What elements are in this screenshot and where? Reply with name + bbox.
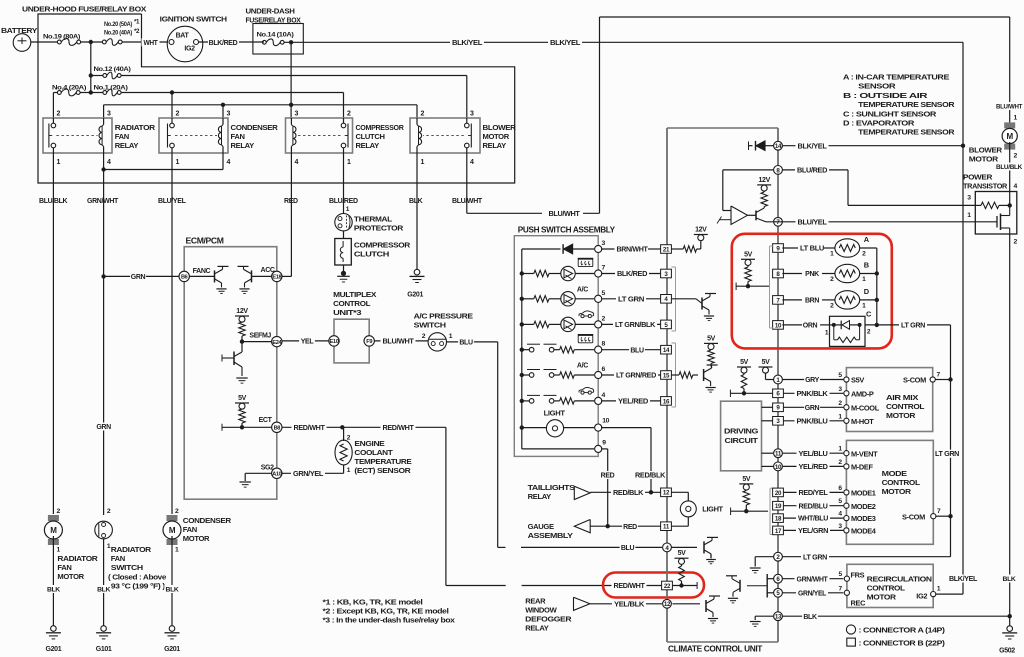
- wire GRY pin1 to air mix S5V: [782, 379, 843, 381]
- svg-text:GAUGE: GAUGE: [528, 522, 554, 531]
- svg-text:5V: 5V: [238, 395, 247, 402]
- svg-text:12V: 12V: [236, 308, 248, 315]
- red highlight around RED/WHT pin 22: [603, 573, 704, 598]
- svg-text:12V: 12V: [758, 177, 770, 184]
- recirculation control motor box: [847, 564, 933, 607]
- svg-text:BLU/YEL: BLU/YEL: [158, 198, 187, 205]
- pin15 input resistor and transistor: [671, 374, 679, 376]
- svg-text:22: 22: [664, 583, 671, 590]
- svg-text:CLUTCH: CLUTCH: [354, 250, 389, 259]
- svg-text:9: 9: [602, 439, 606, 446]
- wire BLU pressure switch to climate pin 4: [447, 341, 498, 343]
- svg-text:MOTOR: MOTOR: [57, 572, 84, 581]
- svg-text:CLUTCH: CLUTCH: [356, 132, 385, 141]
- svg-text:PNK/BLU: PNK/BLU: [797, 418, 828, 425]
- wire BLK relay4 coil to ground: [416, 153, 418, 269]
- svg-text:S-COM: S-COM: [902, 512, 925, 521]
- svg-text:2: 2: [175, 508, 179, 515]
- power transistor box: [975, 192, 1017, 235]
- svg-text:4: 4: [107, 159, 111, 166]
- svg-text:BATTERY: BATTERY: [1, 26, 37, 35]
- ground G502: [1007, 626, 1013, 632]
- connector group bracket pins 14-15-16: [675, 343, 677, 407]
- svg-text:TEMPERATURE: TEMPERATURE: [354, 457, 411, 466]
- wire GRN label above fan switch: [96, 423, 112, 431]
- svg-text:M: M: [50, 526, 57, 535]
- wire protector to compressor clutch: [343, 231, 345, 239]
- svg-text:RED/BLK: RED/BLK: [635, 473, 665, 480]
- svg-text:FAN: FAN: [115, 132, 129, 141]
- svg-text:5V: 5V: [744, 251, 753, 258]
- svg-text:4: 4: [602, 392, 606, 399]
- pin21 pull-up resistor to 12V: [671, 248, 683, 250]
- wire battery to fuse No.19: [31, 41, 58, 43]
- svg-text:MOTOR: MOTOR: [867, 592, 897, 601]
- wire RED/WHT to climate pin 22 riser: [342, 426, 446, 428]
- ECM pin E18 ACC: [272, 271, 282, 281]
- svg-text:BLU/WHT: BLU/WHT: [996, 104, 1023, 111]
- push switch common bus: [521, 249, 523, 449]
- svg-text:1: 1: [1014, 115, 1018, 122]
- wire BLU to climate pin 4: [521, 546, 662, 548]
- svg-text:BLU/BLK: BLU/BLK: [996, 164, 1022, 171]
- svg-text:2: 2: [421, 111, 425, 118]
- wire BLK power transistor to ground G502: [1009, 234, 1011, 626]
- svg-text:YEL/BLU: YEL/BLU: [799, 451, 828, 458]
- connector legend: [846, 625, 855, 634]
- wire RED/WHT from B8 to ECT sensor: [282, 426, 342, 428]
- svg-text:10: 10: [775, 322, 782, 329]
- svg-text:4: 4: [1014, 183, 1018, 190]
- svg-text:YEL/RED: YEL/RED: [618, 399, 648, 406]
- wire GRN/WHT relay coils return: [103, 153, 105, 170]
- svg-text:G201: G201: [407, 292, 423, 299]
- wire YEL/GRN pin17 to MODE4: [783, 529, 843, 531]
- wire GRN/YEL from A10 to ECT sensor: [282, 472, 344, 474]
- svg-text:UNIT*3: UNIT*3: [333, 308, 361, 317]
- wire BLK/YEL down to relay coil rail: [290, 42, 292, 118]
- svg-text:LT GRN: LT GRN: [803, 554, 827, 561]
- wire WHT/BLU pin18 to MODE3: [783, 517, 843, 519]
- svg-text:2: 2: [1014, 153, 1018, 160]
- thermal protector: [335, 214, 352, 231]
- svg-text:GRN: GRN: [96, 424, 111, 431]
- svg-text:CONTROL: CONTROL: [867, 583, 906, 592]
- svg-text:RED/BLK: RED/BLK: [613, 490, 643, 497]
- svg-text:M-HOT: M-HOT: [851, 417, 874, 426]
- svg-text:12: 12: [664, 601, 671, 608]
- svg-text:B6: B6: [181, 275, 188, 281]
- svg-text:BLK: BLK: [97, 587, 110, 594]
- wire GRN pin9 to M-COOL: [783, 406, 843, 408]
- svg-text:BLU/WHT: BLU/WHT: [549, 211, 581, 218]
- svg-text:BLK: BLK: [409, 198, 423, 205]
- pin4 input transistor: [671, 298, 696, 300]
- svg-text:ACC: ACC: [261, 267, 275, 274]
- svg-text:GRN: GRN: [805, 405, 820, 412]
- svg-text:RECIRCULATION: RECIRCULATION: [867, 574, 932, 583]
- svg-text:*2: *2: [134, 28, 140, 35]
- ECT internal stub: [222, 426, 242, 428]
- svg-text:12: 12: [663, 490, 670, 497]
- svg-text:No.20 (50A): No.20 (50A): [104, 21, 132, 28]
- svg-text:BLU/RED: BLU/RED: [797, 168, 827, 175]
- svg-text:CIRCUIT: CIRCUIT: [725, 436, 759, 445]
- relay K3 compressor clutch relay: [286, 118, 353, 153]
- svg-text:No.19 (80A): No.19 (80A): [43, 34, 80, 41]
- svg-text:ENGINE: ENGINE: [354, 439, 384, 448]
- relay coil supply rail: [104, 104, 417, 106]
- relay K1 radiator fan relay: [43, 118, 112, 153]
- sensor pins: [773, 244, 784, 253]
- svg-text:1: 1: [449, 333, 453, 340]
- svg-text:21: 21: [663, 246, 670, 253]
- svg-text:YEL: YEL: [301, 339, 315, 346]
- switch row pin 8 defogger BLU: [520, 348, 524, 352]
- climate left edge pins: [661, 245, 672, 254]
- svg-text:6: 6: [602, 366, 606, 373]
- svg-text:14: 14: [775, 143, 782, 150]
- svg-text:ASSEMBLY: ASSEMBLY: [528, 531, 573, 540]
- wire fuse19 to node: [81, 41, 103, 43]
- svg-text:GRN/WHT: GRN/WHT: [797, 576, 829, 583]
- svg-text:E10: E10: [330, 339, 339, 345]
- svg-text:LT GRN/RED: LT GRN/RED: [616, 373, 656, 380]
- svg-text:IG2: IG2: [184, 46, 195, 53]
- wire RED/BLK to climate pin 12: [590, 491, 660, 493]
- svg-text:M-DEF: M-DEF: [851, 463, 873, 472]
- svg-text:DRIVING: DRIVING: [724, 427, 759, 436]
- svg-text:F9: F9: [366, 339, 372, 345]
- svg-text:MODE: MODE: [882, 469, 907, 478]
- wire BLU/RED relay3 out to thermal protector: [343, 153, 345, 213]
- output transistor pull-up resistor: [763, 190, 765, 193]
- wire PNK/BLK pin6 to AMD-P: [783, 392, 843, 394]
- svg-text:16: 16: [663, 398, 670, 405]
- svg-text:B8: B8: [274, 426, 281, 432]
- svg-text:S-COM: S-COM: [903, 376, 926, 385]
- svg-text:MOTOR: MOTOR: [183, 534, 210, 543]
- svg-text:A/C: A/C: [577, 363, 588, 370]
- svg-text:A10: A10: [272, 472, 281, 478]
- svg-text:M: M: [169, 526, 176, 535]
- svg-text:SEFMJ: SEFMJ: [249, 333, 271, 340]
- wire BLK pin13 to ground G502: [782, 615, 1009, 617]
- svg-text:SENSOR: SENSOR: [858, 82, 896, 91]
- svg-text:UNDER-DASH: UNDER-DASH: [246, 7, 295, 16]
- svg-text:BRN/WHT: BRN/WHT: [617, 247, 649, 254]
- svg-text:MODE3: MODE3: [851, 514, 876, 523]
- svg-text:*1: *1: [134, 19, 140, 26]
- svg-text:B : OUTSIDE AIR: B : OUTSIDE AIR: [843, 91, 928, 100]
- climate right edge pins top group: [774, 141, 783, 150]
- svg-text:WHT/BLU: WHT/BLU: [798, 516, 828, 523]
- ACC driver transistor: [251, 270, 253, 282]
- svg-text:RADIATOR: RADIATOR: [115, 123, 156, 132]
- relay K2 condenser fan relay: [159, 118, 228, 153]
- svg-text:3: 3: [227, 111, 231, 118]
- in-car temperature sensor A: [782, 247, 800, 249]
- svg-text:CONTROL: CONTROL: [882, 478, 921, 487]
- svg-text:RED/BLU: RED/BLU: [799, 503, 828, 510]
- svg-text:BLU/RED: BLU/RED: [329, 198, 358, 205]
- ground G101 radiator fan switch: [101, 626, 107, 632]
- pin14 internal diode: [748, 142, 750, 151]
- svg-text:5V: 5V: [742, 476, 751, 483]
- svg-text:BLK/RED: BLK/RED: [209, 40, 238, 47]
- sensor bus vertical: [876, 248, 878, 325]
- svg-text:D : EVAPORATOR: D : EVAPORATOR: [843, 119, 915, 128]
- svg-text:*2 : Except KB, KG, TR, KE mo: *2 : Except KB, KG, TR, KE model: [323, 607, 449, 616]
- compressor clutch ground: [343, 265, 345, 273]
- LT GRN vertical S-COM bus: [950, 325, 952, 557]
- svg-text:DEFOGGER: DEFOGGER: [525, 614, 572, 623]
- compressor clutch coil: [335, 239, 352, 266]
- svg-text:3: 3: [602, 240, 606, 247]
- svg-text:REAR: REAR: [525, 596, 546, 605]
- svg-text:G502: G502: [999, 648, 1015, 655]
- wire BLU/YEL pin7 to power transistor: [766, 221, 975, 223]
- svg-text:*3 : In the under-dash fuse/r: *3 : In the under-dash fuse/relay box: [323, 616, 456, 625]
- svg-text:2: 2: [1014, 239, 1018, 246]
- wire RED/YEL pin20 to MODE1: [783, 491, 843, 493]
- switch row pin 6 A/C LT GRN/RED: [520, 373, 524, 377]
- pin2 internal ground: [755, 556, 773, 558]
- svg-text:3: 3: [967, 195, 971, 202]
- svg-text:M: M: [1007, 132, 1014, 141]
- svg-text:COMPRESSOR: COMPRESSOR: [356, 123, 405, 132]
- svg-text:3: 3: [295, 111, 299, 118]
- svg-text:CONTROL: CONTROL: [333, 299, 371, 308]
- svg-text:GRN/YEL: GRN/YEL: [293, 471, 324, 478]
- svg-text:1: 1: [57, 547, 61, 554]
- svg-text:MOTOR: MOTOR: [483, 132, 510, 141]
- svg-text:5: 5: [602, 290, 606, 297]
- svg-text:BLK: BLK: [803, 614, 817, 621]
- svg-text:FAN: FAN: [111, 554, 125, 563]
- pins 6/5 internal driver: [767, 578, 773, 580]
- under-hood fuse/relay box outline: [38, 14, 515, 183]
- svg-text:MODE4: MODE4: [851, 527, 877, 536]
- svg-text:WHT: WHT: [144, 40, 159, 47]
- svg-text:CONDENSER: CONDENSER: [183, 516, 232, 525]
- svg-text:FRS: FRS: [851, 570, 865, 579]
- svg-text:1: 1: [57, 159, 61, 166]
- svg-text:BLU/BLK: BLU/BLK: [39, 198, 68, 205]
- svg-text:UNDER-HOOD FUSE/RELAY BOX: UNDER-HOOD FUSE/RELAY BOX: [22, 5, 146, 14]
- svg-text:MULTIPLEX: MULTIPLEX: [333, 290, 376, 299]
- svg-text:BLK/YEL: BLK/YEL: [452, 40, 483, 47]
- pin12 YEL/BLK input transistor: [673, 603, 701, 605]
- svg-text:BLK: BLK: [166, 587, 179, 594]
- wire LT GRN pin2 common return: [782, 556, 950, 558]
- svg-text:13: 13: [775, 614, 782, 621]
- svg-text:5V: 5V: [740, 359, 749, 366]
- op-amp comparator: [731, 206, 748, 225]
- battery B+ terminal: [13, 34, 31, 52]
- evaporator temperature sensor D: [782, 299, 802, 301]
- svg-text:BLK/YEL: BLK/YEL: [798, 143, 828, 150]
- svg-text:11: 11: [775, 451, 782, 458]
- ground G201 radiator fan motor: [51, 626, 57, 632]
- pin4 transistor BLU input: [671, 546, 697, 548]
- svg-text:15: 15: [663, 372, 670, 379]
- pin13 internal ground: [755, 615, 773, 617]
- svg-text:RED/WHT: RED/WHT: [614, 583, 646, 590]
- svg-text:BLK: BLK: [1003, 576, 1016, 583]
- svg-text:12V: 12V: [695, 227, 707, 234]
- svg-text:18: 18: [775, 516, 782, 523]
- ECM/PCM box: [184, 247, 277, 500]
- outside air temperature sensor B: [782, 273, 802, 275]
- wire YEL/BLU pin11 to M-VENT: [783, 452, 844, 454]
- driving circuit to pin9 wire: [762, 406, 773, 408]
- SEFMJ transistor: [241, 342, 243, 352]
- svg-text:(ECT) SENSOR: (ECT) SENSOR: [354, 466, 411, 475]
- svg-text:RELAY: RELAY: [356, 141, 380, 150]
- ground G201 blower relay coil: [414, 269, 420, 275]
- svg-text:4: 4: [295, 159, 299, 166]
- driving circuit to pin10 wire: [762, 465, 774, 467]
- svg-text:GRN/YEL: GRN/YEL: [798, 590, 827, 597]
- svg-text:FANC: FANC: [193, 268, 211, 275]
- svg-text:PNK/BLK: PNK/BLK: [797, 391, 828, 398]
- svg-text:RED: RED: [623, 524, 637, 531]
- svg-text:No.12 (40A): No.12 (40A): [94, 66, 131, 73]
- svg-text:4: 4: [227, 159, 231, 166]
- svg-text:MOTOR: MOTOR: [882, 487, 912, 496]
- svg-text:17: 17: [775, 528, 782, 535]
- wire RED to climate pin 11: [590, 525, 660, 527]
- multiplex pin E10: [329, 336, 339, 346]
- svg-text:FAN: FAN: [183, 525, 197, 534]
- wire BLU/WHT F9 to pressure switch: [374, 340, 428, 342]
- svg-text:SWITCH: SWITCH: [414, 321, 446, 330]
- svg-text:LT BLU: LT BLU: [800, 246, 824, 253]
- wire BLU/BLK relay1 out: [52, 153, 54, 514]
- svg-text:No.4 (20A): No.4 (20A): [52, 85, 86, 92]
- wire YEL/RED pin10 to M-DEF: [783, 465, 844, 467]
- svg-text:5V: 5V: [707, 335, 716, 342]
- svg-text:LT GRN: LT GRN: [618, 296, 644, 303]
- recirculation IG2 pin 1: [931, 592, 936, 597]
- svg-text:RELAY: RELAY: [115, 141, 139, 150]
- svg-text:A : IN-CAR TEMPERATURE: A : IN-CAR TEMPERATURE: [843, 73, 949, 82]
- svg-text:CLIMATE CONTROL UNIT: CLIMATE CONTROL UNIT: [668, 644, 763, 653]
- svg-text:RELAY: RELAY: [525, 623, 549, 632]
- ECM pin B8 ECT: [272, 422, 282, 432]
- wire fuse20 to ignition switch, label WHT: [122, 41, 168, 43]
- svg-text:B: B: [864, 261, 869, 270]
- mode control motor box: [846, 440, 933, 544]
- svg-text:PUSH SWITCH ASSEMBLY: PUSH SWITCH ASSEMBLY: [518, 225, 616, 234]
- svg-text:5V: 5V: [678, 550, 687, 557]
- connector group bracket sensor pins: [769, 246, 771, 328]
- svg-text:BLK/YEL: BLK/YEL: [949, 576, 978, 583]
- driving circuit box: [721, 401, 762, 471]
- pin 9 to gauge RED riser: [522, 448, 594, 450]
- svg-text:No.1 (20A): No.1 (20A): [94, 85, 128, 92]
- ECM SEFMJ pull-up resistor: [241, 321, 243, 323]
- svg-text:BAT: BAT: [176, 33, 190, 40]
- wire YEL E24 to E10: [282, 340, 329, 342]
- wire PNK/BLU pin3 to M-HOT: [783, 420, 843, 422]
- wire No.4 to radiator fan relay pin 2: [52, 93, 54, 119]
- svg-text:1: 1: [421, 159, 425, 166]
- svg-text:14: 14: [663, 347, 670, 354]
- svg-text:2: 2: [602, 315, 606, 322]
- wire No.1 to condenser fan relay pin 2 and compressor clutch relay pin 2: [121, 92, 344, 94]
- relay K4 blower motor relay: [410, 118, 480, 153]
- svg-text:1: 1: [176, 159, 180, 166]
- wire BLK/YEL ignition feed rail: [284, 41, 963, 43]
- svg-text:11: 11: [663, 524, 670, 531]
- wire BLU/WHT relay4 out: [466, 153, 468, 213]
- svg-text:BLU/WHT: BLU/WHT: [383, 339, 415, 346]
- svg-text:POWER: POWER: [963, 173, 993, 182]
- svg-text:2: 2: [57, 508, 61, 515]
- switch row pin 4 car icon YEL/RED: [520, 399, 524, 403]
- multiplex pin F9: [364, 336, 374, 346]
- svg-text:RED/YEL: RED/YEL: [799, 490, 829, 497]
- svg-text:10: 10: [602, 418, 609, 425]
- svg-text:FAN: FAN: [57, 563, 71, 572]
- ECM pin B6 FANC: [179, 271, 189, 281]
- svg-text:2: 2: [347, 111, 351, 118]
- air mix control motor box: [846, 368, 932, 432]
- svg-text:No.20 (40A): No.20 (40A): [104, 30, 132, 37]
- output transistor: [748, 214, 757, 216]
- lamp row pin 7 BLK/RED with defogger icon: [520, 271, 524, 275]
- svg-text:LT GRN/BLK: LT GRN/BLK: [615, 322, 655, 329]
- svg-text:BLOWER: BLOWER: [969, 146, 1003, 155]
- svg-text:BLU: BLU: [621, 545, 635, 552]
- ECM pin E24 SEFMJ: [272, 336, 282, 346]
- svg-text:20: 20: [775, 490, 782, 497]
- connector group bracket pins 20-19-18-17: [769, 488, 771, 534]
- svg-text:IG2: IG2: [916, 591, 927, 600]
- svg-text:FAN: FAN: [231, 132, 245, 141]
- svg-text:2: 2: [176, 111, 180, 118]
- ECM ECT pull-up resistor: [241, 408, 243, 410]
- svg-text:COMPRESSOR: COMPRESSOR: [354, 241, 411, 250]
- svg-text:CONDENSER: CONDENSER: [231, 123, 279, 132]
- svg-text:A/C PRESSURE: A/C PRESSURE: [414, 312, 473, 321]
- svg-text:IGNITION SWITCH: IGNITION SWITCH: [160, 15, 227, 24]
- wire BLU/YEL relay2 out: [171, 153, 173, 514]
- svg-text:LT GRN: LT GRN: [935, 451, 959, 458]
- svg-text:A/C: A/C: [577, 287, 588, 294]
- ECT sensor: [343, 427, 345, 441]
- svg-text:: CONNECTOR B (22P): : CONNECTOR B (22P): [859, 638, 946, 647]
- wire RED relay3 coil to ECM E18: [290, 153, 292, 276]
- svg-text:BLU: BLU: [459, 340, 473, 347]
- svg-text:YEL/GRN: YEL/GRN: [798, 528, 828, 535]
- svg-text:BLK: BLK: [47, 587, 60, 594]
- svg-text:BLU/YEL: BLU/YEL: [798, 219, 828, 226]
- svg-text:RADIATOR: RADIATOR: [57, 554, 98, 563]
- svg-text:G201: G201: [164, 646, 180, 653]
- pin8 BLU/RED wire to power transistor: [782, 169, 848, 171]
- svg-text:3: 3: [470, 111, 474, 118]
- wire YEL/BLK to climate pin 12: [590, 603, 662, 605]
- svg-text:RED: RED: [284, 198, 298, 205]
- svg-text:5V: 5V: [762, 359, 771, 366]
- svg-text:2: 2: [107, 508, 111, 515]
- svg-text:LIGHT: LIGHT: [702, 505, 723, 514]
- svg-text:CONTROL: CONTROL: [886, 402, 925, 411]
- svg-text:BLK/RED: BLK/RED: [617, 271, 647, 278]
